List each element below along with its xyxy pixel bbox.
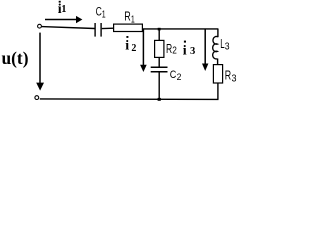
svg-text:i: i — [183, 44, 187, 59]
wire C2 to bottom — [158, 72, 160, 99]
wire R1 to top-right corner — [142, 28, 218, 30]
svg-text:3: 3 — [225, 42, 230, 53]
label i2 — [125, 36, 136, 54]
capacitor C1 — [95, 23, 101, 37]
label R2 — [166, 42, 177, 57]
svg-text:2: 2 — [172, 46, 177, 57]
svg-text:3: 3 — [190, 45, 196, 57]
resistor R2 — [155, 40, 164, 57]
svg-text:3: 3 — [232, 74, 237, 85]
label C2 — [170, 69, 182, 83]
svg-text:R: R — [124, 10, 131, 24]
capacitor C2 — [151, 67, 168, 72]
node junction bottom of C2 branch — [158, 98, 161, 101]
terminal top-left — [38, 24, 42, 28]
svg-text:1: 1 — [102, 9, 106, 20]
label L3 — [220, 37, 230, 53]
label R3 — [225, 69, 237, 85]
svg-text:R: R — [225, 69, 231, 83]
resistor R3 — [213, 65, 222, 83]
current arrow i1 — [45, 16, 82, 23]
current arrow i2 — [140, 30, 147, 73]
inductor L3 — [213, 36, 218, 59]
wire top-left — [42, 27, 95, 29]
svg-text:u(t): u(t) — [2, 48, 29, 68]
svg-text:i: i — [125, 39, 129, 54]
wire R2 to C2 — [158, 57, 160, 66]
svg-text:2: 2 — [131, 43, 136, 54]
wire R3 to bottom-right corner — [217, 83, 219, 99]
label i1 — [58, 1, 67, 17]
wire top-right corner down to L3 — [217, 29, 219, 37]
voltage arrow u(t) — [36, 33, 44, 91]
bottom wire — [40, 98, 219, 101]
wire C1 to R1 — [102, 27, 114, 29]
terminal bottom-left — [35, 96, 39, 100]
label C1 — [96, 6, 106, 20]
svg-text:1: 1 — [61, 4, 66, 15]
current arrow i3 — [202, 30, 208, 72]
resistor R1 — [114, 24, 143, 31]
label R1 — [124, 10, 135, 26]
node junction top of R2 branch — [158, 28, 161, 31]
label i3 — [183, 41, 196, 59]
svg-text:C: C — [170, 69, 177, 81]
svg-text:R: R — [166, 42, 172, 56]
wire L3 to R3 — [217, 59, 219, 65]
svg-text:2: 2 — [177, 72, 182, 83]
wire junction to R2 — [158, 29, 160, 41]
